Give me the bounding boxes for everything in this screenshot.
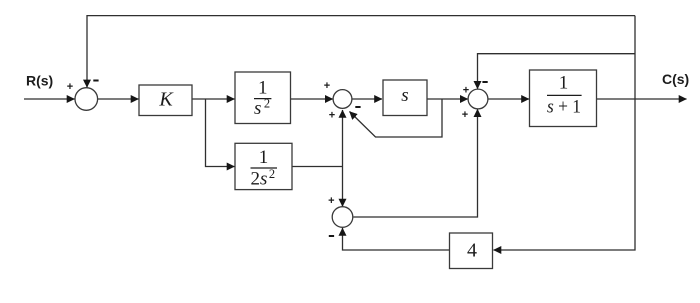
sign plus S4 top <box>328 195 334 207</box>
sign minus S1 top <box>93 80 98 82</box>
svg-text:s + 1: s + 1 <box>547 97 581 118</box>
fraction label 1/(s+1) <box>547 73 582 118</box>
svg-text:4: 4 <box>467 240 477 262</box>
fraction label 1/s2 <box>254 78 271 120</box>
wire sum S4 output right and up into sum S3 bottom <box>353 109 477 217</box>
sign plus S3 bottom <box>462 109 468 121</box>
block 1/2s2 <box>235 143 292 189</box>
sign plus S2 left <box>324 80 330 92</box>
wire sum S3 to block 1/(s+1) <box>488 98 529 100</box>
svg-text:+: + <box>463 85 469 97</box>
label 4 <box>467 240 477 262</box>
svg-text:1: 1 <box>259 147 269 168</box>
wire block 4 output left and up into sum S4 bottom <box>343 228 450 250</box>
wire block K to block 1/s2 <box>192 98 235 100</box>
sign minus S3 top <box>482 81 487 83</box>
wire sum S2 to block s <box>352 98 382 100</box>
label K <box>158 89 174 111</box>
summing junction S3 <box>468 89 488 109</box>
wire output line to C(s) <box>597 98 687 100</box>
wire inner feedback from s output down and diagonally into sum S2 <box>350 99 443 137</box>
wire output tap vertical down to block 4 <box>494 16 636 250</box>
wire outer feedback from output tap to sum S1 <box>87 16 635 88</box>
svg-text:C(s): C(s) <box>662 71 689 87</box>
wire node up into sum S2 bottom <box>342 110 344 167</box>
svg-text:+: + <box>324 80 330 92</box>
sign plus S1 input <box>67 81 73 93</box>
block 1/(s+1) <box>530 70 597 127</box>
block K <box>139 85 192 116</box>
summing junction S1 <box>75 88 98 111</box>
svg-text:+: + <box>329 109 335 121</box>
summing junction S4 <box>332 207 353 228</box>
svg-text:+: + <box>328 195 334 207</box>
label s <box>401 85 408 106</box>
wire block 1/2s2 to node at x343 <box>292 166 343 168</box>
svg-text:K: K <box>158 89 174 111</box>
label R(s) <box>26 73 53 89</box>
wire branch K output down to block 1/2s2 <box>206 99 235 167</box>
wire node down into sum S4 top <box>342 167 344 207</box>
svg-text:+: + <box>462 109 468 121</box>
block 1/s2 <box>235 72 291 124</box>
svg-text:R(s): R(s) <box>26 73 53 89</box>
svg-text:1: 1 <box>258 78 268 99</box>
fraction label 1/2s2 <box>251 147 278 190</box>
svg-text:s: s <box>401 85 408 106</box>
wire R(s) input <box>24 98 75 100</box>
wire middle feedback from output tap into sum S3 top <box>478 54 636 89</box>
summing junction S2 <box>333 90 352 109</box>
block s <box>383 80 427 116</box>
sign minus S2 right <box>355 106 360 108</box>
svg-text:+: + <box>67 81 73 93</box>
label C(s) <box>662 71 689 87</box>
wire sum S1 to block K <box>98 98 139 100</box>
block 4 <box>450 233 493 269</box>
wire block s to sum S3 <box>427 98 468 100</box>
svg-text:1: 1 <box>559 73 569 94</box>
sign plus S2 bottom <box>329 109 335 121</box>
sign plus S3 left <box>463 85 469 97</box>
wire block 1/s2 to sum S2 <box>291 98 333 100</box>
sign minus S4 bottom <box>329 235 334 237</box>
